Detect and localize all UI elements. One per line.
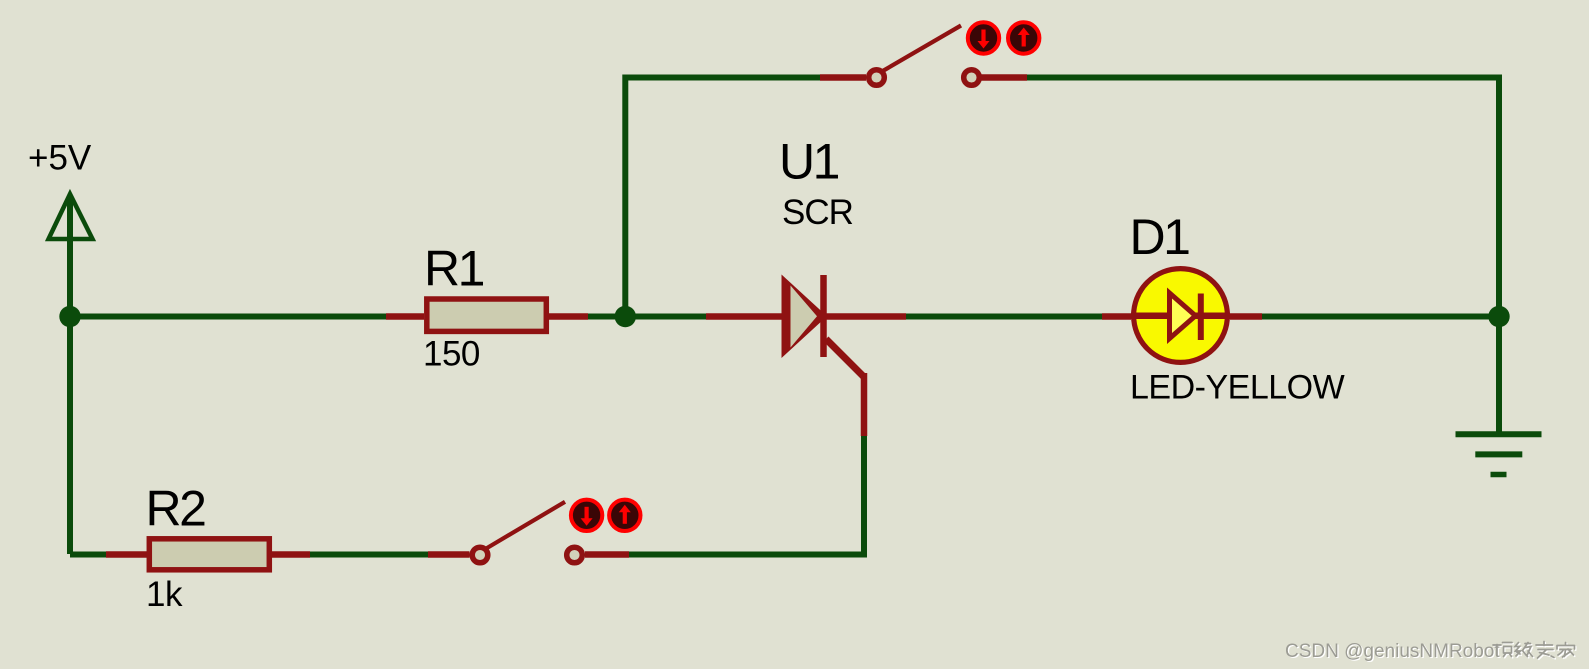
svg-text:+5V: +5V xyxy=(28,139,92,178)
svg-text:R1: R1 xyxy=(424,241,484,297)
svg-text:D1: D1 xyxy=(1130,209,1190,265)
svg-text:SCR: SCR xyxy=(782,193,853,232)
svg-text:U1: U1 xyxy=(779,134,839,190)
svg-text:CSDN @geniusNMRobot: CSDN @geniusNMRobot xyxy=(1285,641,1500,662)
svg-text:LED-YELLOW: LED-YELLOW xyxy=(1130,369,1345,407)
svg-text:R2: R2 xyxy=(146,481,206,537)
svg-text:150: 150 xyxy=(423,335,480,374)
svg-text:1k: 1k xyxy=(146,575,183,614)
